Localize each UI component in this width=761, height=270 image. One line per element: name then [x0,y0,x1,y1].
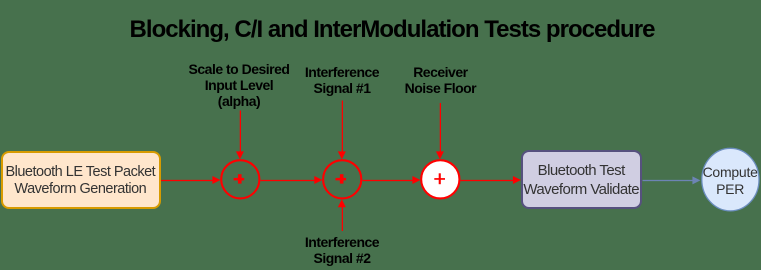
title [0,16,761,44]
wire: S2 to S3 [363,176,421,184]
block: Bluetooth Test Waveform Validate [521,150,642,209]
wire: validate block to compute PER [643,176,701,184]
label: Compute PER text [680,164,761,198]
label: Interference Signal #1 [242,64,442,97]
wire: interference 1 into S2 [338,101,346,160]
summing junction S3 [421,160,459,198]
wire: receiver noise floor into S3 [436,103,444,159]
node: Compute PER ellipse [702,148,759,211]
label: Interference Signal #2 [242,234,442,267]
label: Receiver Noise Floor [340,64,540,97]
summing junction S2 [323,160,361,198]
label: Scale to Desired Input Level (alpha) [139,61,339,110]
block: Bluetooth LE Test Packet Waveform Generation [1,151,161,210]
wire: S1 to S2 [261,176,323,184]
wire: generator to S1 [161,176,220,184]
summing junction S1 [221,160,259,198]
wire: S3 to validate block [461,176,521,184]
wire: scale label into S1 [236,111,244,160]
wire: interference 2 up into S2 [338,199,346,231]
